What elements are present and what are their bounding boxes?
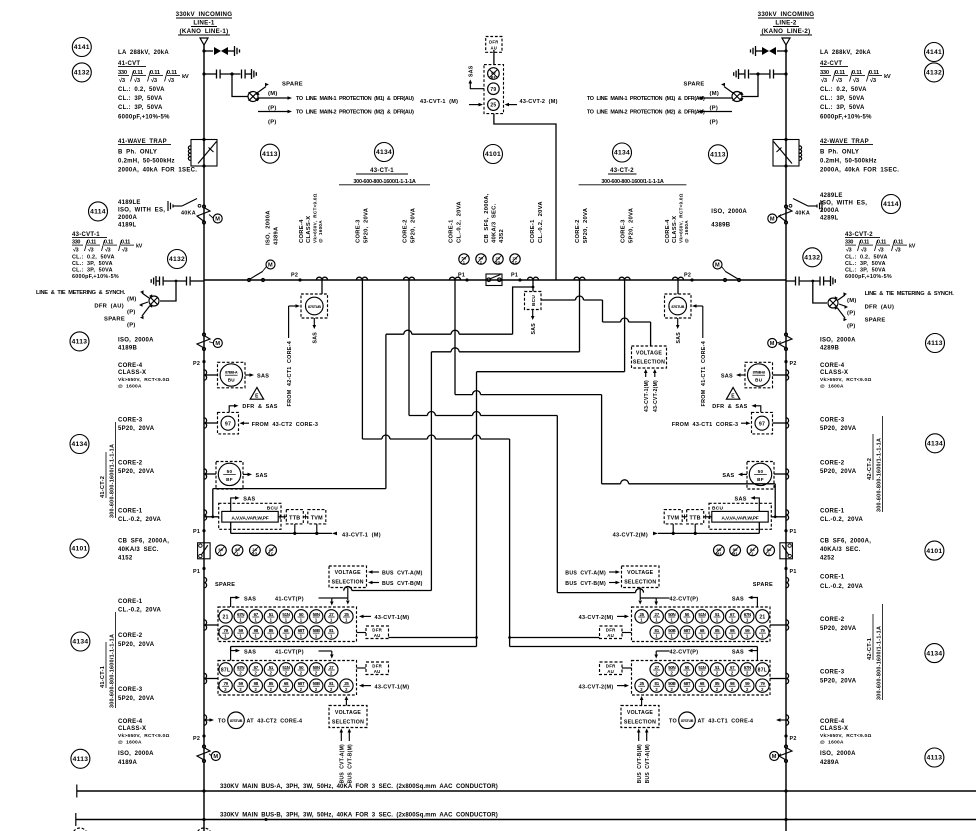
label SPARE top-right <box>684 82 733 98</box>
wire stub 43-CVT-2(M) into VS <box>653 369 659 412</box>
label 42-CVT ratio <box>820 70 891 84</box>
ct 41-CT-2 core-2 bumps <box>204 469 216 479</box>
svg-text:2: 2 <box>270 687 273 692</box>
svg-text:CORE-2: CORE-2 <box>820 461 845 467</box>
relay 50BF box right <box>747 462 774 490</box>
svg-text:50N: 50N <box>668 665 675 670</box>
svg-text:1: 1 <box>716 618 719 623</box>
earth switch 40KA right <box>789 199 822 217</box>
wire BCU to voltage selection <box>541 296 651 346</box>
label 41-CVT(P) bank1 left <box>275 596 348 605</box>
svg-text:VOLTAGE: VOLTAGE <box>627 710 654 716</box>
svg-text:CL.: 3P, 50VA: CL.: 3P, 50VA <box>845 268 886 274</box>
svg-text:CL.-0.2, 20VA: CL.-0.2, 20VA <box>118 517 162 523</box>
svg-text:67N: 67N <box>744 612 751 617</box>
label 43-CVT-1 (M) top <box>420 99 483 106</box>
svg-text:M: M <box>772 754 777 760</box>
svg-text:CORE-4: CORE-4 <box>118 719 143 725</box>
svg-text:BUS CVT-A(M): BUS CVT-A(M) <box>340 744 346 783</box>
label ISO 2000A 4189A <box>118 751 154 766</box>
relay 50BF box left <box>216 462 243 490</box>
label SAS 87BB-A <box>245 373 269 379</box>
svg-text:43-CVT-2 (M): 43-CVT-2 (M) <box>520 99 558 105</box>
svg-text:FROM 43-CT1 CORE-3: FROM 43-CT1 CORE-3 <box>672 422 739 428</box>
label LA 288kV <box>118 50 169 56</box>
node P2-2 right feeder <box>784 734 796 742</box>
svg-text:2: 2 <box>655 671 658 676</box>
svg-text:TO: TO <box>669 719 677 725</box>
svg-text:SAS: SAS <box>244 649 256 655</box>
node feeder2 bus-B junction <box>784 818 787 821</box>
svg-text:330: 330 <box>72 240 80 246</box>
label SAS bank2 left header <box>231 649 257 661</box>
svg-text:43-CT-2: 43-CT-2 <box>610 168 634 174</box>
label 41-CT-2 rotated <box>100 422 116 518</box>
svg-text:1: 1 <box>220 552 222 556</box>
svg-text:2: 2 <box>300 671 303 676</box>
svg-text:@ 1600A: @ 1600A <box>118 740 142 746</box>
svg-text:1: 1 <box>731 618 734 623</box>
svg-text:VOLTAGE: VOLTAGE <box>636 351 663 357</box>
svg-text:68T: 68T <box>298 681 305 686</box>
svg-text:330: 330 <box>118 70 127 76</box>
warning triangle E right <box>726 388 739 400</box>
wire 43-CVT-1 secondary drop <box>160 280 177 301</box>
wire left feeder incoming arrow <box>200 38 208 45</box>
dashed box voltage selection lower-right <box>621 706 659 728</box>
svg-text:1: 1 <box>746 634 749 639</box>
svg-text:2: 2 <box>716 671 719 676</box>
svg-text:FROM 42-CT1 CORE-4: FROM 42-CT1 CORE-4 <box>287 341 293 406</box>
svg-text:CL.: 3P, 50VA: CL.: 3P, 50VA <box>72 268 113 274</box>
svg-text:M: M <box>770 217 775 223</box>
svg-text:BU: BU <box>755 378 763 383</box>
svg-text:50N: 50N <box>313 665 320 670</box>
svg-text:43-CVT-2(M): 43-CVT-2(M) <box>653 380 659 412</box>
svg-text:√3: √3 <box>878 247 884 254</box>
svg-text:DFR (AU): DFR (AU) <box>94 304 124 310</box>
svg-text:2: 2 <box>670 671 673 676</box>
label 43-CVT-2(M) bank1 right <box>579 615 629 621</box>
svg-text:3G: 3G <box>495 261 500 265</box>
box TTB right <box>687 510 712 524</box>
wire feeder stubs below bus-B <box>204 820 786 831</box>
svg-text:(KANO LINE-1): (KANO LINE-1) <box>180 28 229 35</box>
svg-text:50B: 50B <box>668 681 675 686</box>
balloon 4101 right <box>925 541 944 560</box>
svg-text:43-CT-1: 43-CT-1 <box>370 168 394 174</box>
balloon 4132 cvt right <box>803 248 822 267</box>
svg-text:5P20, 20VA: 5P20, 20VA <box>118 469 155 475</box>
wire CVT secondary drop <box>232 74 248 97</box>
svg-text:TO LINE MAIN-2 PROTECTION (M2): TO LINE MAIN-2 PROTECTION (M2) & DFR(AU) <box>296 110 414 116</box>
dashed box voltage selection center <box>632 346 667 368</box>
label 43-CVT-2 classes <box>845 255 892 281</box>
label line tie metering left <box>36 290 150 329</box>
svg-text:42-CT-1: 42-CT-1 <box>867 638 873 660</box>
svg-text:ISO, 2000A: ISO, 2000A <box>266 210 272 245</box>
svg-text:LINE-1: LINE-1 <box>193 20 215 27</box>
svg-text:4389B: 4389B <box>711 223 730 229</box>
svg-text:41-WAVE TRAP: 41-WAVE TRAP <box>118 139 167 145</box>
svg-text:1: 1 <box>254 634 257 639</box>
svg-text:M: M <box>268 263 273 269</box>
wire main bus-A <box>77 785 976 798</box>
svg-text:CORE-3: CORE-3 <box>118 418 143 424</box>
svg-text:M: M <box>715 263 720 269</box>
svg-text:TO: TO <box>218 719 226 725</box>
label core-1 low-left <box>118 599 162 614</box>
svg-text:50: 50 <box>227 469 233 474</box>
svg-text:2: 2 <box>300 687 303 692</box>
svg-text:CORE-3: CORE-3 <box>356 219 362 243</box>
svg-text:M1: M1 <box>732 552 738 556</box>
ct spare bumps right <box>753 577 789 588</box>
ct 41-CT-2 core-3 bumps <box>204 418 218 428</box>
svg-text:SPARE: SPARE <box>215 582 235 588</box>
svg-text:4289LE: 4289LE <box>820 193 843 199</box>
svg-text:DFR & SAS: DFR & SAS <box>242 404 277 410</box>
label bus CT core-4 right rotated <box>665 193 689 243</box>
label core-4 low-right <box>820 719 872 746</box>
svg-text:2: 2 <box>701 671 704 676</box>
label 42-CT-1 rotated <box>867 604 883 700</box>
node line-1 title <box>176 11 233 35</box>
svg-text:DFR: DFR <box>372 664 382 669</box>
earth switch 40KA left <box>168 199 201 217</box>
svg-text:2: 2 <box>330 671 333 676</box>
svg-text:SPARE: SPARE <box>753 582 773 588</box>
svg-text:67N: 67N <box>744 665 751 670</box>
dashed box relay bank2 right <box>632 661 771 696</box>
svg-text:2: 2 <box>686 671 689 676</box>
svg-text:2: 2 <box>640 687 643 692</box>
svg-text:43-CVT-1(M): 43-CVT-1(M) <box>375 615 410 621</box>
svg-text:M: M <box>770 341 775 347</box>
svg-text:CL.-0.2, 20VA: CL.-0.2, 20VA <box>820 517 864 523</box>
relay 50BF top <box>488 68 500 80</box>
svg-text:TTB: TTB <box>690 515 701 521</box>
dashed box DFR AU bank1 right <box>600 626 632 639</box>
dashed box relay bank2 left <box>218 661 357 696</box>
svg-text:50N: 50N <box>313 612 320 617</box>
svg-text:1: 1 <box>330 634 333 639</box>
node P2-2 left feeder <box>193 734 206 742</box>
svg-text:AU: AU <box>607 633 614 638</box>
svg-text:50N: 50N <box>668 612 675 617</box>
svg-text:CL.: 0.2, 50VA: CL.: 0.2, 50VA <box>845 255 888 261</box>
svg-text:4352: 4352 <box>499 229 505 243</box>
relay 25 top <box>488 99 500 111</box>
svg-text:51N: 51N <box>698 612 705 617</box>
svg-text:5P20, 20VA: 5P20, 20VA <box>411 207 417 243</box>
label core-2 low-right <box>820 617 857 632</box>
relay circle 95/M1 right feeder <box>730 545 741 556</box>
relay 87STUB right <box>665 294 692 318</box>
meter box BCU left <box>219 503 281 529</box>
svg-text:87STUB: 87STUB <box>681 719 694 723</box>
svg-text:SELECTION: SELECTION <box>624 719 656 725</box>
svg-text:kV: kV <box>884 74 891 80</box>
svg-text:87L: 87L <box>758 667 767 673</box>
label 43-CVT-1 classes <box>72 255 119 281</box>
svg-text:1: 1 <box>254 618 257 623</box>
svg-text:√3: √3 <box>122 247 128 254</box>
svg-text:(P): (P) <box>847 311 856 317</box>
svg-text:SPARE: SPARE <box>865 318 886 324</box>
svg-text:4132: 4132 <box>926 70 942 77</box>
svg-text:kV: kV <box>909 244 916 250</box>
svg-text:P1: P1 <box>458 273 465 279</box>
label SAS 50BF left <box>243 473 268 479</box>
svg-text:2: 2 <box>746 687 749 692</box>
wire VS spur to relay 25/1 right <box>638 588 642 605</box>
svg-text:Vk>650V, RCT<9.0Ω: Vk>650V, RCT<9.0Ω <box>118 733 170 739</box>
label SAS meter right <box>735 496 760 511</box>
svg-text:0.11: 0.11 <box>877 240 886 246</box>
balloon 4101 top <box>484 145 503 164</box>
svg-text:2: 2 <box>236 552 238 556</box>
svg-text:0.11: 0.11 <box>860 240 869 246</box>
svg-text:5P20, 20VA: 5P20, 20VA <box>629 207 635 243</box>
svg-text:330: 330 <box>820 70 829 76</box>
svg-text:(KANO LINE-2): (KANO LINE-2) <box>762 28 811 35</box>
svg-text:(P): (P) <box>710 106 719 112</box>
svg-text:68T: 68T <box>298 628 305 633</box>
ct 43-CT-1 core-4 tap <box>316 277 327 294</box>
svg-text:42-WAVE TRAP: 42-WAVE TRAP <box>820 139 869 145</box>
svg-text:5P20, 20VA: 5P20, 20VA <box>820 469 857 475</box>
relay circle 26/1C left feeder <box>266 545 277 556</box>
svg-text:SAS: SAS <box>732 649 744 655</box>
capacitor 41-CVT branch <box>202 69 256 79</box>
label 43-CVT-1 title <box>72 232 107 238</box>
svg-text:0.11: 0.11 <box>104 240 113 246</box>
svg-text:41-CT-2: 41-CT-2 <box>100 476 106 498</box>
svg-text:CORE-1: CORE-1 <box>118 509 143 515</box>
svg-text:50B: 50B <box>313 628 320 633</box>
svg-text:4132: 4132 <box>169 256 185 263</box>
svg-text:50: 50 <box>758 469 764 474</box>
svg-text:SAS: SAS <box>732 596 744 602</box>
svg-text:1: 1 <box>315 618 318 623</box>
svg-text:(P): (P) <box>710 120 719 126</box>
label BUS CVT-B(M) upper-left <box>368 581 423 587</box>
isolator on bus right with motor <box>713 260 741 282</box>
ct 43-CT-1 core-3 tap <box>356 277 367 280</box>
svg-text:CORE-2: CORE-2 <box>118 461 143 467</box>
relay circle 50/1 left feeder <box>216 545 227 556</box>
svg-text:DFR: DFR <box>372 628 382 633</box>
circuit breaker 4152 left <box>198 543 211 559</box>
svg-text:4289A: 4289A <box>820 760 839 766</box>
svg-text:5P20, 20VA: 5P20, 20VA <box>118 642 155 648</box>
svg-text:CORE-1: CORE-1 <box>118 599 143 605</box>
meter box BCU right <box>709 503 771 529</box>
svg-text:87BB-A: 87BB-A <box>225 370 238 375</box>
node line-2 title <box>758 11 815 35</box>
balloon 4114 left <box>89 202 108 221</box>
svg-text:@ 1600A: @ 1600A <box>318 220 323 243</box>
label 41-CVT classes <box>118 87 170 121</box>
isolator right feeder below bus <box>768 333 792 351</box>
isolator right feeder bottom <box>770 745 792 763</box>
svg-text:2000A, 40kA FOR 1SEC.: 2000A, 40kA FOR 1SEC. <box>820 168 899 174</box>
svg-text:CL.-0.2, 20VA: CL.-0.2, 20VA <box>118 608 162 614</box>
node P2 left feeder <box>193 360 206 367</box>
node feeder1 bus-A junction <box>202 789 205 792</box>
svg-text:0.11: 0.11 <box>121 240 130 246</box>
label tie CB rotated <box>484 193 505 243</box>
svg-text:2000A, 40kA FOR 1SEC.: 2000A, 40kA FOR 1SEC. <box>118 168 197 174</box>
svg-text:B Ph. ONLY: B Ph. ONLY <box>118 150 157 156</box>
wire from 42-CT1 core-4 stub <box>287 304 300 406</box>
svg-text:P1: P1 <box>790 529 797 535</box>
svg-text:CORE-2: CORE-2 <box>403 219 409 243</box>
label 41-CT-1 rotated <box>100 612 116 708</box>
svg-text:68T: 68T <box>684 681 691 686</box>
svg-text:CL.: 3P, 50VA: CL.: 3P, 50VA <box>845 261 886 267</box>
svg-text:CL.: 3P, 50VA: CL.: 3P, 50VA <box>72 261 113 267</box>
label 43-CT-2 title <box>579 168 687 185</box>
svg-text:1: 1 <box>270 634 273 639</box>
svg-text:4189A: 4189A <box>118 760 137 766</box>
node P1-2 right feeder <box>784 567 796 575</box>
svg-text:2: 2 <box>731 687 734 692</box>
svg-text:67N: 67N <box>237 665 244 670</box>
wire meter output 43-CVT-2(M) <box>613 522 760 538</box>
svg-text:1: 1 <box>463 261 465 265</box>
svg-text:ISO, 2000A: ISO, 2000A <box>820 338 856 344</box>
balloon 4141 right <box>925 43 944 62</box>
box TVM right <box>664 510 687 524</box>
capacitor 43-CVT-1 string <box>151 276 204 286</box>
svg-text:5P20, 20VA: 5P20, 20VA <box>820 679 857 685</box>
svg-text:43-CVT-2: 43-CVT-2 <box>845 232 873 238</box>
wave trap 42 label <box>820 139 899 174</box>
splitter 41-CVT secondary <box>248 92 260 102</box>
svg-text:@ 1600A: @ 1600A <box>684 220 689 243</box>
ct 43-CT-2 core-3 tap <box>619 277 630 280</box>
svg-text:1: 1 <box>315 634 318 639</box>
svg-text:42-CVT: 42-CVT <box>820 61 842 67</box>
label core-3 low-right <box>820 670 857 685</box>
label BUS CVT-A(M) upper-left <box>368 570 423 576</box>
svg-text:5P20, 20VA: 5P20, 20VA <box>820 626 857 632</box>
svg-text:CORE-1: CORE-1 <box>820 509 845 515</box>
node P1 left <box>458 273 469 282</box>
label core-3 mid-left <box>118 418 155 433</box>
node P1 right <box>511 273 522 282</box>
svg-text:P2: P2 <box>193 361 200 367</box>
relay circle 50/2 above CB <box>476 254 486 265</box>
label core-3 mid-right <box>820 418 857 433</box>
wire W6 left core-1 to right meters <box>455 280 775 517</box>
svg-text:1: 1 <box>239 618 242 623</box>
label 42-CVT(P) bank1 right <box>640 596 698 605</box>
box TTB left <box>278 510 303 524</box>
label DFR and SAS right <box>712 404 761 412</box>
svg-text:VOLTAGE: VOLTAGE <box>627 570 654 576</box>
balloon 4134 low right <box>925 644 944 663</box>
svg-text:2: 2 <box>701 687 704 692</box>
svg-text:BU: BU <box>228 378 236 383</box>
svg-text:SAS: SAS <box>722 473 734 479</box>
ct 41-CT-2 core-1 bumps <box>204 510 219 520</box>
svg-text:√3: √3 <box>895 247 901 254</box>
svg-text:1: 1 <box>330 618 333 623</box>
svg-text:1: 1 <box>300 634 303 639</box>
svg-text:M: M <box>213 754 218 760</box>
svg-text:330: 330 <box>845 240 853 246</box>
label main bus-A <box>220 784 498 790</box>
svg-text:41-CVT(P): 41-CVT(P) <box>275 649 304 655</box>
svg-text:4132: 4132 <box>74 70 90 77</box>
svg-text:4113: 4113 <box>710 152 726 159</box>
svg-text:CL.: 0.2, 50VA: CL.: 0.2, 50VA <box>820 87 867 93</box>
svg-text:1: 1 <box>300 618 303 623</box>
svg-text:1: 1 <box>701 618 704 623</box>
svg-text:LINE-2: LINE-2 <box>775 20 797 27</box>
svg-text:4114: 4114 <box>90 209 106 216</box>
wire stub 43-CVT-1(M) into VS <box>644 369 650 412</box>
relay circle 26/3G above CB <box>493 254 503 265</box>
node P2 left of bus <box>291 273 302 282</box>
relay circle 95/M2 right feeder <box>714 545 725 556</box>
svg-text:6000pF,+10%-5%: 6000pF,+10%-5% <box>845 274 892 280</box>
ct 42-CT-2 core-1 bumps <box>771 510 788 520</box>
box TVM left <box>303 510 326 524</box>
svg-text:1: 1 <box>670 634 673 639</box>
svg-text:Vk>650V, RCT<9.0Ω: Vk>650V, RCT<9.0Ω <box>820 733 872 739</box>
svg-text:FROM 41-CT1 CORE-4: FROM 41-CT1 CORE-4 <box>701 341 707 406</box>
ct spare bumps left <box>204 577 235 588</box>
svg-text:6000pF,+10%-5%: 6000pF,+10%-5% <box>118 115 170 121</box>
svg-text:CL.: 3P, 50VA: CL.: 3P, 50VA <box>820 96 865 102</box>
svg-text:CORE-3: CORE-3 <box>820 418 845 424</box>
ct 42-CT-1 core-4 stub <box>669 712 789 729</box>
wave trap 42 symbol <box>773 138 802 168</box>
svg-text:(P): (P) <box>268 106 277 112</box>
balloon 4113 mid left <box>70 332 89 351</box>
svg-text:CLASS-X: CLASS-X <box>820 726 848 732</box>
label core-2 mid-left <box>118 461 155 476</box>
svg-text:2: 2 <box>761 687 764 692</box>
relay circle 86/1 right feeder <box>764 545 775 556</box>
svg-text:4134: 4134 <box>376 149 392 156</box>
svg-text:4189LE: 4189LE <box>118 200 141 206</box>
svg-text:(P): (P) <box>127 310 136 316</box>
svg-text:51N: 51N <box>282 612 289 617</box>
svg-text:CL.: 3P, 50VA: CL.: 3P, 50VA <box>118 105 163 111</box>
label main bus-B <box>220 813 498 819</box>
svg-text:CLASS-X: CLASS-X <box>306 216 312 243</box>
svg-text:√3: √3 <box>88 247 94 254</box>
label 41-CVT title <box>118 61 146 67</box>
svg-text:43-CVT-1 (M): 43-CVT-1 (M) <box>342 532 381 538</box>
svg-text:CORE-4: CORE-4 <box>118 363 143 369</box>
svg-text:6000pF,+10%-5%: 6000pF,+10%-5% <box>820 115 872 121</box>
ct 42-CT-2 core-4 bumps <box>773 370 789 380</box>
wire main bus-B <box>76 813 976 826</box>
wire right feeder main vertical <box>785 45 787 820</box>
svg-text:4101: 4101 <box>926 548 942 555</box>
svg-text:5P20, 20VA: 5P20, 20VA <box>583 207 589 243</box>
label ISO 2000A 4289A <box>820 751 856 766</box>
relay circle 50/1 above CB <box>459 254 469 265</box>
splitter 42-CVT secondary <box>732 92 744 102</box>
svg-text:68T: 68T <box>684 628 691 633</box>
